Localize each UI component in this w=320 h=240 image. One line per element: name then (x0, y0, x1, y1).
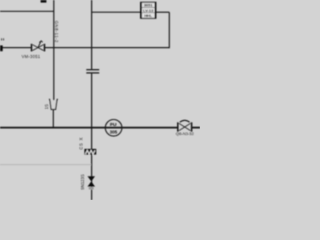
svg-text:PU: PU (110, 122, 117, 128)
svg-text:3051: 3051 (144, 3, 153, 8)
svg-text:GN8-11-2: GN8-11-2 (54, 21, 59, 43)
svg-text:1S: 1S (44, 104, 49, 109)
svg-text:CS X: CS X (79, 137, 84, 150)
svg-text:QB-N3-52: QB-N3-52 (176, 131, 195, 136)
svg-text:HHL: HHL (144, 13, 153, 18)
svg-text:305: 305 (110, 130, 118, 135)
svg-text:VM-3051: VM-3051 (22, 54, 41, 59)
svg-text:9N123S: 9N123S (80, 174, 85, 190)
